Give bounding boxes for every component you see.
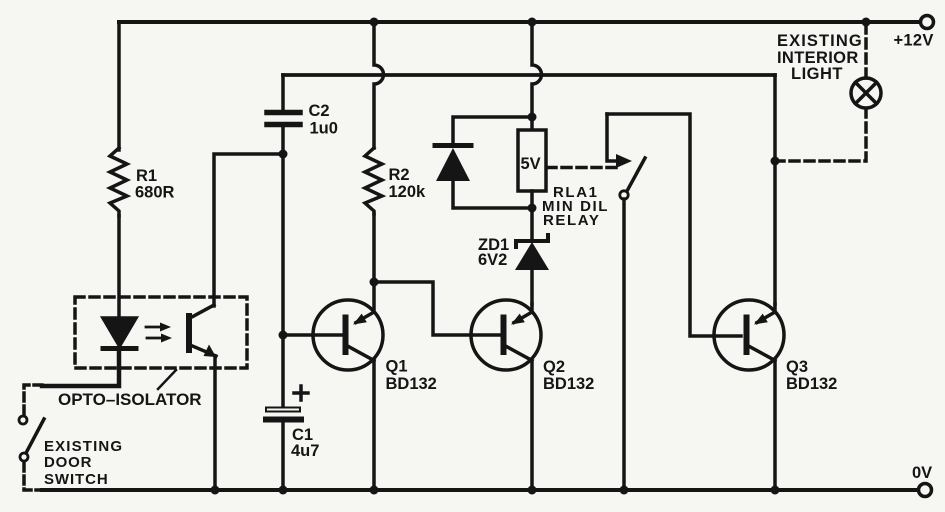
svg-text:OPTO–ISOLATOR: OPTO–ISOLATOR (58, 390, 202, 409)
svg-text:+12V: +12V (894, 32, 934, 50)
wire +12V top rail (119, 20, 920, 24)
dashed wire to interior light (775, 108, 866, 161)
capacitor C1 (electrolytic) (266, 386, 308, 490)
phototransistor of opto-isolator (186, 305, 216, 357)
svg-text:LIGHT: LIGHT (791, 65, 843, 83)
svg-text:R2: R2 (389, 166, 410, 184)
resistor R1 (110, 148, 127, 216)
diode D1 (flyback) (435, 117, 532, 208)
node: Q3 emitter / lamp tap (771, 157, 780, 166)
zener ZD1 (515, 235, 549, 304)
relay contact wire with arrow (607, 114, 632, 168)
node dots on 0V rail (211, 486, 780, 495)
light arrows (146, 323, 172, 343)
terminal 0V (919, 484, 932, 497)
node: relay bottom / diode (528, 204, 537, 213)
svg-text:4u7: 4u7 (291, 442, 319, 460)
LED (opto emitter diode) (103, 318, 136, 349)
wire mid rail corner down to Q3 emitter (773, 75, 777, 304)
pointer line to opto box (158, 370, 176, 389)
svg-text:Q2: Q2 (543, 358, 565, 376)
wire Q1 emitter junction to Q2 base (374, 282, 500, 335)
wire 0V bottom rail (42, 488, 918, 492)
svg-text:1u0: 1u0 (310, 120, 338, 138)
wire contact to Q3 base (607, 114, 741, 336)
relay contact blade (627, 158, 645, 191)
svg-text:Q3: Q3 (786, 358, 808, 376)
dashed wire lamp to +12V rail (864, 24, 868, 78)
node: C2 bottom junction (279, 150, 288, 159)
svg-text:Q1: Q1 (386, 358, 408, 376)
node dots on top rail (370, 18, 379, 27)
svg-text:EXISTING: EXISTING (777, 32, 863, 50)
svg-text:R1: R1 (136, 167, 157, 185)
relay contact pivot (620, 191, 628, 199)
relay contact: dashed actuator link (547, 166, 618, 170)
wire R1 to LED anode (117, 216, 121, 318)
transistor Q1 (283, 282, 383, 370)
svg-text:0V: 0V (912, 464, 932, 482)
svg-text:6V2: 6V2 (478, 251, 507, 269)
node: Q1 base junction (279, 331, 288, 340)
wire opto collector up to node (214, 154, 281, 306)
wire Q2 collector to 0V (530, 361, 534, 490)
wire C2 junction down to Q1 base node (281, 154, 285, 335)
svg-text:EXISTING: EXISTING (44, 438, 123, 455)
svg-text:5V: 5V (521, 155, 541, 173)
capacitor C2 (267, 75, 300, 154)
wire node to C1 top (281, 335, 285, 408)
svg-text:SWITCH: SWITCH (44, 471, 109, 488)
svg-text:DOOR: DOOR (44, 454, 92, 471)
svg-text:BD132: BD132 (786, 375, 837, 393)
wire Q3 collector to 0V (773, 361, 777, 490)
opto-isolator dashed box (75, 297, 247, 368)
wire LED cathode down and left (bold) (42, 351, 119, 386)
wire mid rail from C2 to Q3 emitter (283, 73, 775, 77)
wire relay branch from top rail with hop (532, 22, 541, 130)
resistor R2 branch with hop over mid rail (365, 22, 383, 282)
wire contact to 0V (622, 199, 626, 490)
node: Q1 emitter junction (370, 278, 379, 287)
svg-text:RELAY: RELAY (543, 212, 600, 229)
lamp (existing interior light) (851, 78, 881, 108)
svg-text:120k: 120k (389, 183, 427, 201)
terminal +12V (921, 16, 934, 29)
relay coil RLA1 (5V) (518, 130, 546, 191)
wire opto emitter down to 0V rail (213, 356, 217, 490)
transistor Q2 (471, 300, 541, 370)
transistor Q3 (714, 300, 784, 370)
svg-text:BD132: BD132 (386, 375, 437, 393)
existing door switch (dashed) (19, 385, 44, 490)
wire left branch from rail to R1 (117, 22, 121, 150)
wire relay bottom to ZD1 (530, 191, 534, 239)
svg-text:BD132: BD132 (543, 375, 594, 393)
svg-text:680R: 680R (135, 184, 175, 202)
svg-text:C2: C2 (309, 102, 330, 120)
wire Q1 collector to 0V (372, 361, 376, 490)
node: relay top / diode (528, 113, 537, 122)
